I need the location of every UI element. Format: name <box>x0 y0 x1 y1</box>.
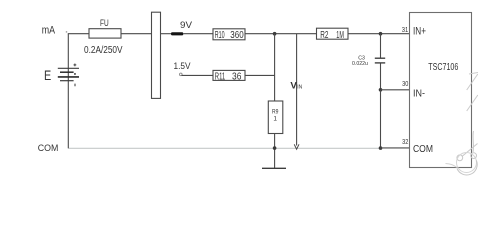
battery 9V thick cell bar <box>171 32 183 35</box>
svg-text:mA: mA <box>42 24 56 36</box>
svg-text:IN-: IN- <box>413 89 425 100</box>
wire R9 to ground <box>274 134 276 169</box>
node R9-COM junction dot <box>273 146 277 150</box>
node COM rail (light grey) <box>68 147 380 149</box>
watermark logo <box>446 131 478 175</box>
resistor R11 box <box>213 70 245 80</box>
arrowhead VIN <box>294 144 299 149</box>
svg-text:30: 30 <box>402 81 408 88</box>
svg-text:R9: R9 <box>272 108 279 115</box>
wire fuse to shunt <box>121 33 152 35</box>
wire R11 to node A <box>245 74 275 76</box>
svg-text:TSC7106: TSC7106 <box>428 62 458 73</box>
wire mA corner to fuse <box>68 33 89 35</box>
wire VIN measure line <box>296 34 298 146</box>
resistor R2 box <box>317 28 349 39</box>
svg-text:COM: COM <box>413 144 433 155</box>
svg-text:FU: FU <box>100 18 109 28</box>
node A junction dot <box>273 32 277 36</box>
wire 1.5V to R11 <box>182 74 214 76</box>
watermark hatch lines <box>467 73 478 112</box>
shunt bar (vertical rectangle) <box>152 12 161 98</box>
svg-text:1.5V: 1.5V <box>174 61 192 72</box>
node C3 top junction dot <box>379 32 383 36</box>
wire shunt to 9V cell <box>161 33 172 35</box>
svg-text:E: E <box>44 68 51 83</box>
svg-text:R11: R11 <box>215 71 225 82</box>
node COM junction dot <box>379 146 383 150</box>
node IN- junction dot <box>379 88 383 92</box>
wire battery vertical <box>67 34 69 149</box>
IC U1 TSC7106 body <box>410 13 472 168</box>
svg-text:V: V <box>290 81 297 91</box>
battery E plate short 1 <box>60 71 74 73</box>
svg-text:IN: IN <box>297 85 302 91</box>
wire C3 top lead <box>380 34 382 58</box>
svg-text:1: 1 <box>273 116 277 123</box>
wire node A down to R9 <box>274 34 276 101</box>
battery E plate short 2 <box>60 80 74 82</box>
battery E plate long 1 <box>58 67 79 69</box>
battery E minus mark <box>74 84 76 87</box>
ground bar <box>262 167 286 169</box>
svg-text:31: 31 <box>402 27 409 34</box>
wire COM pin <box>381 147 410 149</box>
wire R10 to R2 <box>245 33 317 35</box>
svg-text:IN+: IN+ <box>413 25 426 37</box>
wire 9V cell to R10 <box>183 33 213 35</box>
resistor R9 box <box>268 101 283 134</box>
battery E mid mark <box>74 73 76 75</box>
svg-text:0.022u: 0.022u <box>352 61 368 67</box>
svg-text:0.2A/250V: 0.2A/250V <box>84 45 123 56</box>
capacitor C3 plates <box>375 57 385 59</box>
wire C3 junction down to COM <box>380 90 382 148</box>
svg-text:360: 360 <box>230 30 244 41</box>
node mA corner tick <box>66 31 67 32</box>
wire C3 bottom lead <box>380 63 382 89</box>
svg-text:R10: R10 <box>215 30 225 41</box>
svg-text:9V: 9V <box>180 20 193 31</box>
svg-text:36: 36 <box>232 71 242 82</box>
svg-text:32: 32 <box>402 139 408 146</box>
fuse FU box <box>89 29 121 38</box>
battery E plate long 2 <box>58 76 79 78</box>
svg-text:COM: COM <box>38 143 59 153</box>
svg-text:1M: 1M <box>336 30 344 41</box>
terminal 1.5V open circle <box>180 73 183 76</box>
wire R2 to IC IN+ <box>348 33 410 35</box>
wire IN- pin <box>381 89 410 91</box>
svg-text:R2: R2 <box>320 30 328 41</box>
resistor R10 box <box>213 29 245 40</box>
battery E plus mark <box>74 64 77 67</box>
